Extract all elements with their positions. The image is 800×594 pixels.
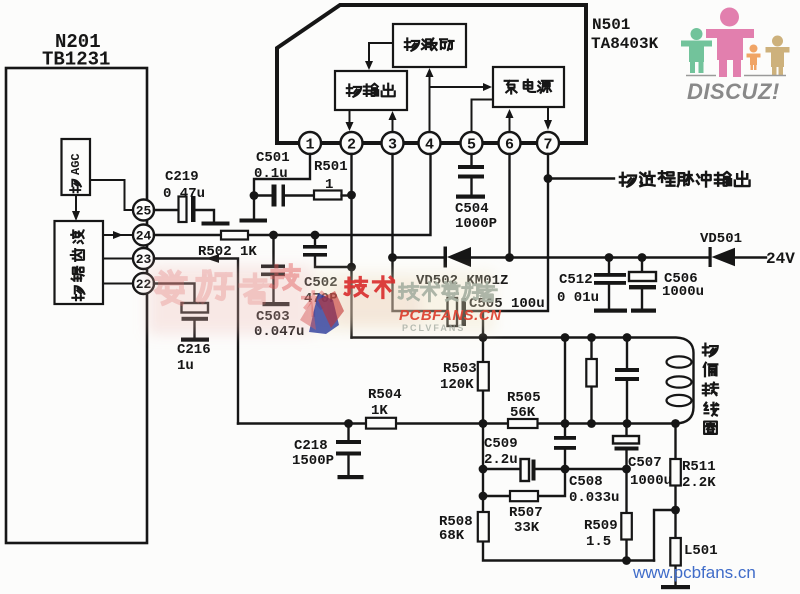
svg-text:3: 3 xyxy=(388,137,397,154)
IC N201 TB1231 box xyxy=(6,68,147,543)
wire pin5 to pump xyxy=(472,100,494,132)
svg-text:AGC: AGC xyxy=(69,153,83,175)
node R503 top xyxy=(479,333,488,342)
node R507-left 496 xyxy=(479,492,488,501)
text 场偏转线圈 (field deflection coil) vertical xyxy=(703,344,718,357)
wire pin1 to C501 node xyxy=(254,154,310,196)
svg-text:1500P: 1500P xyxy=(292,453,334,469)
watermark peacock blue/red xyxy=(309,293,339,334)
discuz logo green figure xyxy=(681,28,712,73)
wire pin3 down xyxy=(391,154,393,258)
wire node to C501 xyxy=(254,194,272,196)
resistor R502 1K xyxy=(221,231,248,240)
svg-text:0.033u: 0.033u xyxy=(569,490,619,506)
node C508 bottom xyxy=(561,465,570,474)
discuz baseline xyxy=(686,75,786,77)
svg-text:C218: C218 xyxy=(294,438,328,454)
pin 4 xyxy=(419,132,441,154)
node box top-left xyxy=(388,253,397,262)
ground xyxy=(661,585,690,589)
capacitor C501 0.1u xyxy=(272,185,277,207)
svg-text:25: 25 xyxy=(136,204,152,219)
pin 7 xyxy=(537,132,559,154)
wire C501 to R501 xyxy=(285,194,314,196)
svg-text:0 01u: 0 01u xyxy=(557,290,599,306)
svg-text:1.5: 1.5 xyxy=(586,534,611,550)
node C218 xyxy=(344,419,353,428)
svg-text:5: 5 xyxy=(467,137,476,154)
pin numbers 1-7 xyxy=(305,137,552,154)
discuz logo tan figure xyxy=(766,36,790,76)
wire pin2 line down xyxy=(350,154,352,338)
capacitor C506 1000u xyxy=(638,253,647,262)
arrow into pin23 xyxy=(206,254,219,263)
pin 6 xyxy=(499,132,521,154)
pin 3 xyxy=(382,132,404,154)
watermark gray chars 技术爱好者 xyxy=(399,282,496,301)
pin numbers 22-25 xyxy=(136,204,152,293)
node x565 top xyxy=(561,333,570,342)
wire pin23 run down-left network xyxy=(154,259,238,424)
wire sawtooth to pin23 xyxy=(103,258,132,260)
node C507 bottom / R509 top xyxy=(622,465,631,474)
wire sawtooth to pin24 with arrow xyxy=(103,234,132,236)
wire x483 vertical + bottom bus xyxy=(483,424,654,561)
resistor R511 2.2K xyxy=(674,424,676,511)
main node wire y=257.5 xyxy=(393,256,767,258)
wire pin6 down xyxy=(508,154,510,258)
capacitor C503 0.047u xyxy=(272,235,274,265)
node x591 bottom xyxy=(587,419,596,428)
node pin6 bottom xyxy=(505,253,514,262)
ground bar C219 xyxy=(202,222,230,226)
resistor R501 1 xyxy=(314,191,342,200)
wire R501 to pin2 line xyxy=(342,194,352,196)
wire pin22 to C216 xyxy=(154,284,195,304)
node R503 bottom xyxy=(479,419,488,428)
block 场输出 (field output) xyxy=(335,71,407,110)
node coil/R511 xyxy=(671,419,680,428)
svg-text:68K: 68K xyxy=(439,528,465,544)
node C501-left xyxy=(250,191,259,200)
svg-text:23: 23 xyxy=(136,252,152,267)
svg-text:R511: R511 xyxy=(682,459,716,475)
block 场AGC xyxy=(62,139,91,195)
resistor R504 1K xyxy=(366,418,396,429)
R507 wire xyxy=(483,469,565,496)
svg-text:R505: R505 xyxy=(507,390,541,406)
node C502 top xyxy=(311,231,320,240)
svg-text:1000u: 1000u xyxy=(630,473,672,489)
diode VD502 KM01Z xyxy=(444,247,448,268)
svg-text:R509: R509 xyxy=(584,518,618,534)
svg-text:VD501: VD501 xyxy=(700,231,742,247)
svg-text:1000u: 1000u xyxy=(662,284,704,300)
text 场AGC rotated xyxy=(70,180,81,193)
svg-text:www.pcbfans.cn: www.pcbfans.cn xyxy=(632,563,756,582)
text 场锯齿波 rotated xyxy=(72,286,84,300)
wire output to pin2 arrow xyxy=(349,110,351,123)
arrow AGC to sawtooth xyxy=(75,195,77,212)
resistor R505 56K xyxy=(508,419,538,428)
svg-text:1000P: 1000P xyxy=(455,216,497,232)
pin 25 xyxy=(133,200,154,221)
svg-text:4: 4 xyxy=(425,137,434,154)
ground bar C501 xyxy=(240,219,268,223)
svg-text:C509: C509 xyxy=(484,436,518,452)
resistor R508 68K xyxy=(478,512,489,542)
node R509 bottom xyxy=(622,556,631,565)
watermark red graffiti chars xyxy=(345,277,393,298)
pin 1 xyxy=(299,132,321,154)
capacitor C505 100u xyxy=(448,298,458,326)
inductor L501 xyxy=(674,510,676,585)
block 场锯齿波 (field sawtooth) xyxy=(55,221,104,304)
svg-text:0.1u: 0.1u xyxy=(254,166,288,182)
svg-text:1: 1 xyxy=(325,177,333,193)
svg-text:C512: C512 xyxy=(559,272,593,288)
capacitor C219 0.47u xyxy=(179,197,187,223)
svg-text:2.2u: 2.2u xyxy=(484,452,518,468)
resistor R503 120K xyxy=(482,338,484,424)
node pin7 retrace branch xyxy=(544,174,553,183)
wire node to bottom bus xyxy=(654,510,676,561)
pin 22 xyxy=(133,273,154,294)
wire pin6 to pump arrow xyxy=(509,117,511,131)
wire C219 to ground xyxy=(196,210,215,221)
node x565 bottom xyxy=(561,419,570,428)
watermark wash band xyxy=(148,266,495,334)
svg-text:R507: R507 xyxy=(509,505,543,521)
svg-text:L501: L501 xyxy=(684,543,718,559)
ground bar C503 xyxy=(263,302,290,306)
capacitor C507 1000u xyxy=(625,424,627,470)
svg-text:C216: C216 xyxy=(177,342,211,358)
node feedback-left 469 xyxy=(479,465,488,474)
svg-text:C219: C219 xyxy=(165,169,199,185)
svg-text:TA8403K: TA8403K xyxy=(591,35,659,53)
svg-text:1K: 1K xyxy=(371,403,388,419)
capacitor C509 2.2u xyxy=(521,459,530,481)
ground bar C216 xyxy=(181,338,209,342)
wire box bottom to sawtooth wire xyxy=(482,311,484,338)
svg-text:1u: 1u xyxy=(177,358,194,374)
discuz logo pink figure xyxy=(706,8,754,78)
svg-text:DISCUZ!: DISCUZ! xyxy=(687,79,780,104)
capacitor C508 0.033u xyxy=(564,424,566,470)
node C502 bottom / pin2 line xyxy=(347,263,356,272)
svg-text:C501: C501 xyxy=(256,150,290,166)
capacitor C216 1u xyxy=(182,303,209,313)
wire pin7 down xyxy=(547,154,549,258)
text 场逆程脉冲输出 (field retrace pulse output) xyxy=(620,173,636,187)
svg-text:24: 24 xyxy=(136,229,152,244)
pin 2 xyxy=(341,132,363,154)
op-amp U1 : IC N501 TA8403K outline xyxy=(277,5,586,143)
svg-text:PCLVFANS: PCLVFANS xyxy=(402,323,465,333)
ground bar C504 xyxy=(456,195,485,199)
block 泵电源 (pump power) xyxy=(493,67,564,107)
node x591 top xyxy=(587,333,596,342)
node R511 bottom xyxy=(671,506,680,515)
capacitor C502 470P xyxy=(314,235,316,245)
svg-text:R502 1K: R502 1K xyxy=(198,244,257,260)
VD502/C505 loop box xyxy=(393,258,549,312)
svg-text:R501: R501 xyxy=(314,159,348,175)
svg-text:1: 1 xyxy=(305,137,314,154)
text 场输出 xyxy=(347,84,361,96)
diode VD501 xyxy=(709,247,712,267)
wire pin4-branch to pump arrow xyxy=(430,86,484,88)
wire retrace output xyxy=(548,177,614,179)
wire pin25 to C219 xyxy=(154,209,179,211)
svg-text:6: 6 xyxy=(505,137,514,154)
svg-text:N501: N501 xyxy=(592,16,630,34)
wire R502 run pin24 to pin4 xyxy=(154,154,431,235)
feedback wire y=469 xyxy=(483,468,627,470)
wire pin4 to drive arrow xyxy=(429,76,431,131)
capacitor C218 1500P xyxy=(347,424,349,441)
node x627 top xyxy=(623,333,632,342)
svg-text:33K: 33K xyxy=(514,520,540,536)
node R501/pin2 xyxy=(347,191,356,200)
node x627 bottom xyxy=(623,419,632,428)
svg-text:24V: 24V xyxy=(766,250,795,268)
sawtooth wire y=337.5 with coil curve xyxy=(352,338,694,424)
resistor unlabeled x591 xyxy=(590,338,592,424)
wire node to ground xyxy=(253,196,255,219)
pin 23 xyxy=(133,248,154,269)
capacitor C504 1000P xyxy=(470,154,472,165)
resistor R509 1.5 xyxy=(625,469,627,561)
pin 5 xyxy=(461,132,483,154)
wire pin3 to output arrow xyxy=(392,119,394,131)
text 场激励 xyxy=(405,38,419,50)
capacitor unlabeled x627 xyxy=(626,338,628,424)
svg-text:0 47u: 0 47u xyxy=(163,186,205,202)
capacitor C512 0.01u xyxy=(605,253,614,262)
svg-text:C507: C507 xyxy=(628,455,662,471)
node C503 top xyxy=(269,231,278,240)
svg-text:C504: C504 xyxy=(455,201,489,217)
pin 24 xyxy=(133,225,154,246)
wire pump to pin7 arrow xyxy=(547,107,549,121)
bottom bus y=423.5 xyxy=(238,422,676,424)
discuz logo orange small figure xyxy=(747,45,761,71)
svg-text:56K: 56K xyxy=(510,405,536,421)
svg-text:2.2K: 2.2K xyxy=(682,475,716,491)
block 场激励 (field drive) xyxy=(393,24,466,67)
wire AGC to pin25 xyxy=(90,180,132,210)
text 泵电源 xyxy=(505,81,518,94)
svg-text:7: 7 xyxy=(543,137,552,154)
svg-text:TB1231: TB1231 xyxy=(42,49,110,71)
svg-text:R503: R503 xyxy=(443,361,477,377)
resistor R507 33K xyxy=(510,491,538,501)
svg-text:R504: R504 xyxy=(368,387,402,403)
svg-text:C508: C508 xyxy=(569,474,603,490)
watermark pink scribbles left xyxy=(157,272,270,303)
svg-text:120K: 120K xyxy=(440,377,474,393)
wire drive-to-output with arrow xyxy=(369,43,393,62)
wire x565 vertical xyxy=(564,338,566,424)
svg-text:PCBFANS.CN: PCBFANS.CN xyxy=(399,307,502,324)
coil 场偏转线圈 loops xyxy=(667,356,692,367)
wire sawtooth to pin22 xyxy=(103,283,132,285)
svg-text:2: 2 xyxy=(347,137,356,154)
